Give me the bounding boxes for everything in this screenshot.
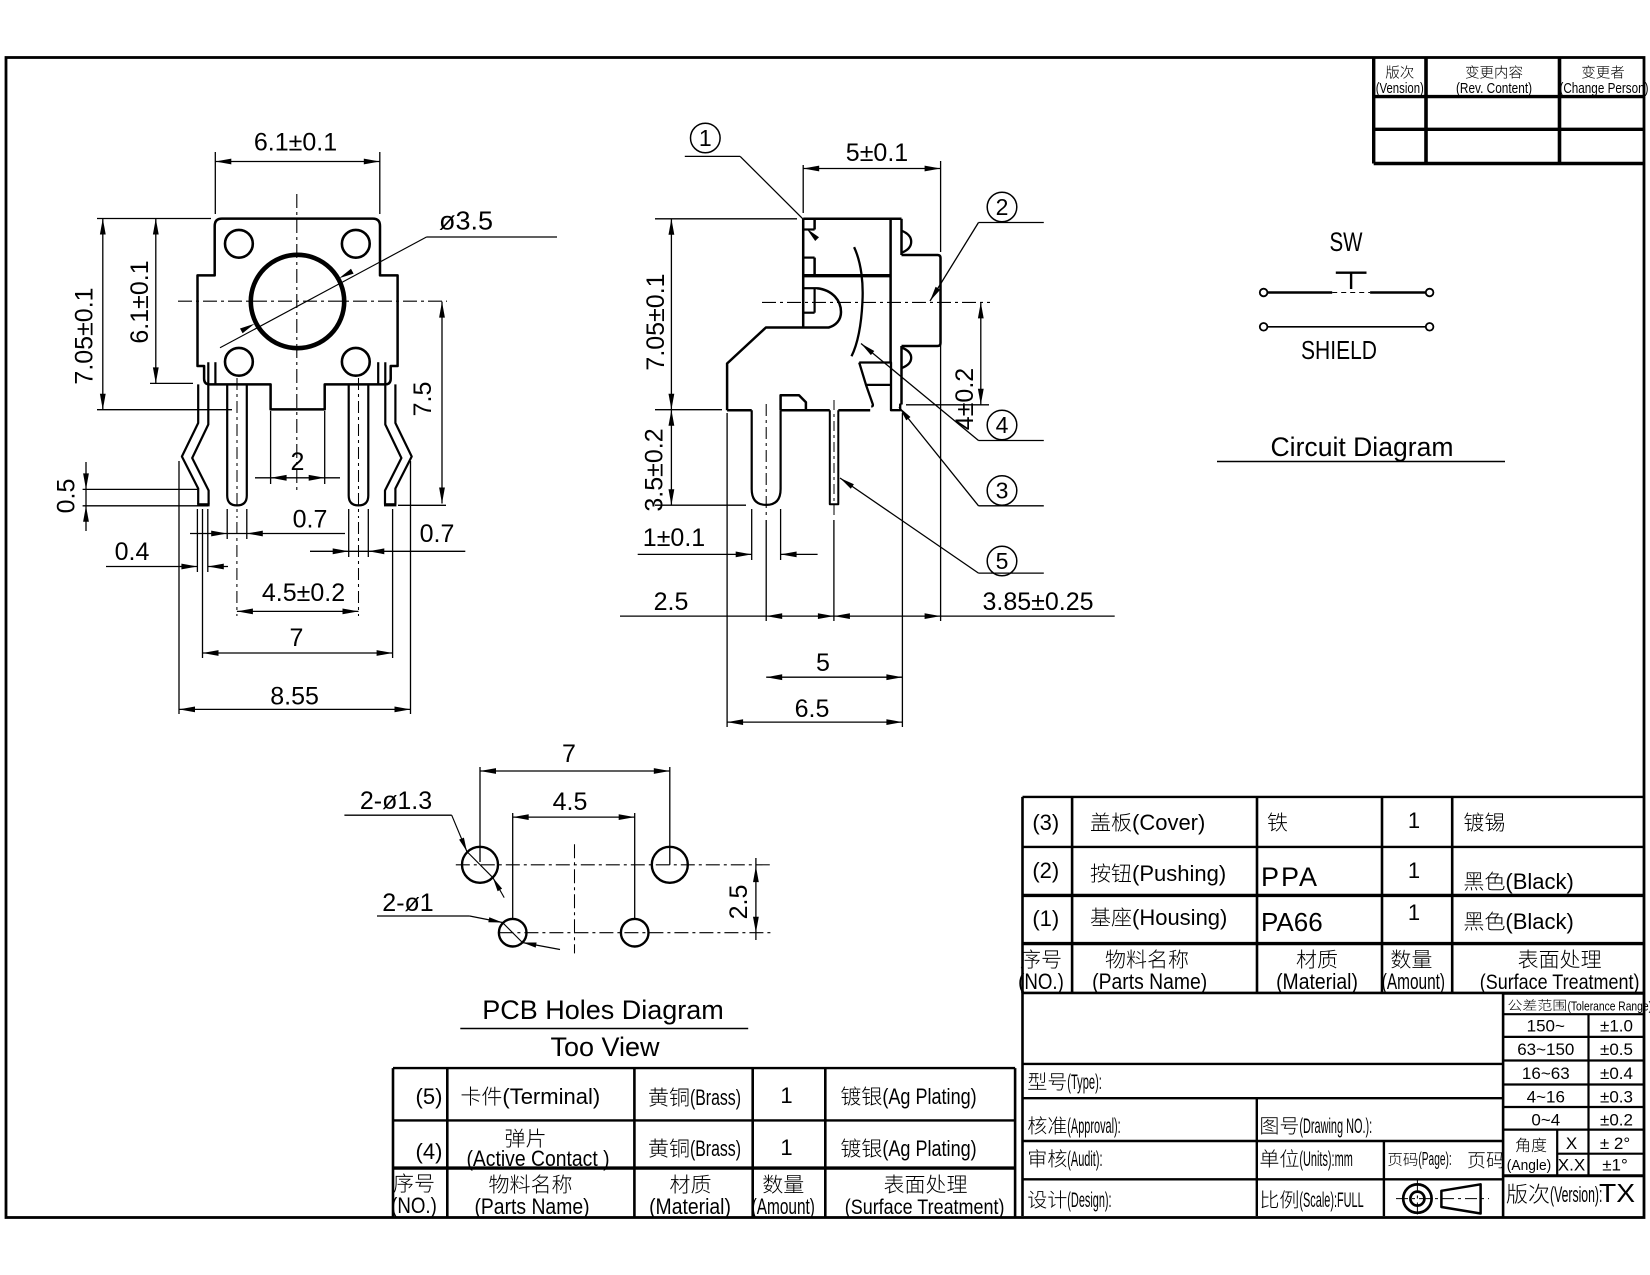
front view left terminal clip [182, 362, 216, 505]
revision table grid [1374, 58, 1645, 164]
pcb hole top-right dia 1.3 [652, 847, 688, 883]
svg-text:16~63: 16~63 [1522, 1064, 1570, 1083]
bottom parts table row 4 active contact [416, 1129, 977, 1171]
dimension 4.5+-0.2 pin pitch [237, 522, 359, 616]
pcb hole bottom-left dia 1 [499, 919, 527, 947]
version cell [1507, 1182, 1603, 1207]
svg-text:(Pushing): (Pushing) [1132, 861, 1226, 886]
bottom parts table grid [393, 1068, 1015, 1217]
svg-text:1: 1 [780, 1083, 792, 1108]
front view corner hole bottom-left [225, 348, 253, 376]
svg-text:6.1±0.1: 6.1±0.1 [254, 129, 337, 157]
dimension 5 side [766, 649, 902, 680]
svg-text:(Rev. Content): (Rev. Content) [1456, 80, 1532, 97]
svg-text:5: 5 [816, 649, 830, 677]
svg-text:2: 2 [291, 448, 305, 476]
svg-text:2.5: 2.5 [654, 588, 689, 616]
dimension 7.05+-0.1 left outer [71, 219, 233, 410]
svg-text:(NO.): (NO.) [391, 1193, 437, 1218]
svg-text:(Vension): (Vension) [1376, 80, 1424, 97]
svg-text:(Drawing NO.):: (Drawing NO.): [1299, 1115, 1372, 1138]
svg-text:SW: SW [1330, 227, 1363, 257]
svg-text:ø3.5: ø3.5 [439, 206, 493, 236]
svg-text:2: 2 [996, 194, 1009, 220]
svg-text:7.05±0.1: 7.05±0.1 [71, 287, 99, 384]
svg-text:(Page):: (Page): [1418, 1149, 1451, 1169]
svg-text:0.7: 0.7 [420, 520, 455, 548]
front view left pin [227, 378, 247, 518]
svg-text:(Black): (Black) [1505, 909, 1573, 934]
front view corner hole bottom-right [342, 348, 370, 376]
svg-text:(Terminal): (Terminal) [502, 1084, 600, 1109]
svg-text:(Cover): (Cover) [1132, 810, 1205, 835]
svg-text:(Black): (Black) [1505, 869, 1573, 894]
switch terminal left [1260, 289, 1268, 297]
dimension 3.5+-0.2 side pin length [641, 410, 747, 512]
dimension 2.5 pcb [725, 858, 759, 940]
side view horizontal centerline [762, 301, 990, 303]
svg-text:2-ø1.3: 2-ø1.3 [360, 787, 432, 815]
svg-text:(Approval):: (Approval): [1067, 1115, 1120, 1138]
svg-text:6.1±0.1: 6.1±0.1 [126, 260, 154, 343]
third angle projection symbol [1396, 1180, 1489, 1218]
front view horizontal centerline [178, 300, 447, 302]
dimension 7 pcb [480, 740, 670, 865]
front view vertical centerline [296, 194, 298, 492]
svg-text:7: 7 [290, 624, 304, 652]
svg-text:2-ø1: 2-ø1 [382, 889, 433, 917]
front view housing body outline [198, 219, 398, 410]
svg-text:PPA: PPA [1261, 862, 1319, 892]
svg-text:X.X: X.X [1558, 1156, 1585, 1175]
dimension 0.4 clip width [106, 509, 228, 572]
svg-text:0~4: 0~4 [1531, 1111, 1560, 1130]
switch symbol [1268, 273, 1426, 293]
svg-text:7.5: 7.5 [409, 382, 437, 417]
right parts table header [1018, 949, 1639, 994]
svg-text:6.5: 6.5 [795, 695, 830, 723]
dimension 8.55 overall width [179, 461, 411, 714]
svg-text:4: 4 [996, 412, 1009, 438]
dimension 1+-0.1 pin width side [638, 509, 818, 560]
svg-text:(Active Contact ): (Active Contact ) [466, 1146, 609, 1171]
side view pushbutton [902, 231, 941, 369]
svg-text:(5): (5) [416, 1084, 443, 1109]
svg-text:0.4: 0.4 [115, 538, 150, 566]
shield wire [1268, 326, 1426, 328]
svg-text:(Ag Plating): (Ag Plating) [882, 1136, 976, 1161]
svg-text:7: 7 [562, 740, 576, 768]
svg-text:3.85±0.25: 3.85±0.25 [982, 588, 1093, 616]
svg-text:(Tolerance Range): (Tolerance Range) [1568, 999, 1650, 1014]
dimension label dia 3.5 with leader [220, 206, 557, 348]
svg-text:(Change Person): (Change Person) [1559, 80, 1648, 97]
balloon 3 cover [899, 407, 1044, 506]
dimension 6.1+-0.1 top [215, 129, 379, 215]
balloon 5 terminal [840, 478, 1044, 576]
dimension 6.5 side [727, 413, 902, 727]
svg-text:(Surface Treatment): (Surface Treatment) [845, 1196, 1005, 1219]
svg-text:SHIELD: SHIELD [1301, 335, 1377, 365]
dimension 5+-0.1 side top [803, 139, 940, 252]
dimension 7.5 right [398, 302, 446, 506]
svg-text:Circuit Diagram: Circuit Diagram [1271, 432, 1454, 462]
balloon 4 active contact [861, 344, 1044, 441]
balloon 1 housing [685, 123, 819, 241]
svg-text:(Amount): (Amount) [1382, 969, 1445, 994]
svg-text:±1°: ±1° [1602, 1156, 1628, 1175]
svg-text:(Scale):FULL: (Scale):FULL [1299, 1189, 1363, 1212]
label 2-dia1.3 with leader [344, 787, 504, 898]
dimension 0.7 right pin width [310, 509, 465, 557]
revision table header 版次(Vension) [1386, 65, 1414, 78]
pcb hole bottom-right dia 1 [621, 919, 649, 947]
svg-text:(4): (4) [416, 1139, 443, 1164]
svg-text:7.05±0.1: 7.05±0.1 [642, 273, 670, 370]
svg-text:(Audit):: (Audit): [1067, 1148, 1102, 1171]
dimension 6.1+-0.1 left inner [126, 219, 193, 384]
svg-text:150~: 150~ [1527, 1017, 1565, 1036]
svg-text:3.5±0.2: 3.5±0.2 [641, 428, 669, 511]
dimension 0.5 clip foot [53, 462, 209, 531]
front view right terminal clip [378, 362, 412, 505]
svg-text:(Parts Name): (Parts Name) [1092, 969, 1207, 994]
svg-text:5±0.1: 5±0.1 [846, 139, 908, 167]
svg-text:±0.3: ±0.3 [1600, 1088, 1633, 1107]
title block grid [1023, 991, 1504, 1216]
revision table header 变更者(Change Person) [1582, 65, 1624, 78]
svg-text:4.5±0.2: 4.5±0.2 [262, 579, 345, 607]
side view cover plate [803, 219, 901, 410]
svg-text:(Design):: (Design): [1067, 1189, 1111, 1212]
svg-text:0.5: 0.5 [53, 479, 81, 514]
svg-text:±0.2: ±0.2 [1600, 1111, 1633, 1130]
bottom parts table row 5 terminal [416, 1083, 977, 1110]
svg-text:(Material): (Material) [649, 1194, 731, 1219]
svg-text:(Ag Plating): (Ag Plating) [882, 1084, 976, 1109]
svg-text:TX: TX [1599, 1178, 1635, 1208]
front view actuator circle dia 3.5 [251, 255, 344, 348]
dimension 0.7 left pin width [190, 506, 345, 540]
bottom parts table header [391, 1173, 1004, 1219]
svg-text:(Angle): (Angle) [1507, 1158, 1551, 1174]
svg-text:0.7: 0.7 [293, 506, 328, 534]
shield terminal left [1260, 323, 1268, 331]
svg-text:PCB Holes Diagram: PCB Holes Diagram [482, 995, 724, 1025]
svg-text:±0.5: ±0.5 [1600, 1040, 1633, 1059]
svg-text:3: 3 [996, 478, 1009, 504]
revision table header 变更内容(Rev. Content) [1466, 65, 1522, 78]
svg-text:4±0.2: 4±0.2 [951, 368, 979, 430]
side view left pin [752, 404, 781, 516]
front view corner hole top-right [342, 230, 370, 258]
dimension 7.05+-0.1 side left [642, 219, 797, 410]
svg-text:1: 1 [699, 125, 712, 151]
dimension 2.5 and 3.85+-0.25 baseline [620, 345, 1115, 621]
svg-text:(Brass): (Brass) [690, 1085, 741, 1110]
side view middle terminal pin [830, 400, 839, 516]
svg-text:1: 1 [1408, 808, 1420, 833]
dimension 4.5 pcb [513, 788, 635, 919]
svg-text:63~150: 63~150 [1517, 1040, 1574, 1059]
svg-text:(Version):: (Version): [1550, 1182, 1602, 1207]
dimension 2 center notch [255, 411, 340, 484]
svg-text:(Parts Name): (Parts Name) [474, 1194, 589, 1219]
right parts table row 1 housing [1032, 900, 1573, 937]
svg-text:Too View: Too View [550, 1032, 660, 1062]
dimension 4+-0.2 side right [906, 302, 989, 430]
svg-text:1: 1 [1408, 900, 1420, 925]
title PCB Holes Diagram [460, 995, 748, 1029]
svg-text:1: 1 [1408, 858, 1420, 883]
dimension 7 clip feet pitch [203, 509, 393, 658]
svg-text:(2): (2) [1032, 858, 1059, 883]
svg-text:(Material): (Material) [1276, 969, 1358, 994]
front view corner hole top-left [225, 230, 253, 258]
svg-text:(Housing): (Housing) [1132, 905, 1227, 930]
svg-text:(Amount): (Amount) [752, 1194, 815, 1219]
svg-text:4.5: 4.5 [553, 788, 588, 816]
svg-text:(Surface Treatment): (Surface Treatment) [1480, 971, 1640, 994]
side view contact flap [859, 363, 891, 407]
svg-text:4~16: 4~16 [1527, 1088, 1565, 1107]
pcb centerlines [456, 844, 771, 953]
shield terminal right [1426, 323, 1434, 331]
svg-text:(Brass): (Brass) [690, 1136, 741, 1161]
svg-text:(Units):mm: (Units):mm [1299, 1148, 1352, 1171]
svg-text:(Type):: (Type): [1067, 1071, 1102, 1094]
side view active contact spring arc [852, 247, 863, 356]
right parts table row 3 cover [1032, 808, 1504, 835]
label 2-dia1 with leader [377, 889, 560, 950]
svg-text:(3): (3) [1032, 810, 1059, 835]
side view housing outline [727, 219, 891, 410]
pcb hole top-left dia 1.3 [462, 847, 498, 883]
svg-text:± 2°: ± 2° [1600, 1134, 1630, 1153]
svg-text:1: 1 [780, 1135, 792, 1160]
title block labels [1028, 1071, 1504, 1212]
front view right pin [349, 378, 369, 518]
right parts table row 2 pushing [1032, 858, 1573, 894]
svg-text:X: X [1566, 1134, 1577, 1153]
svg-text:±1.0: ±1.0 [1600, 1017, 1633, 1036]
svg-text:±0.4: ±0.4 [1600, 1064, 1633, 1083]
svg-text:8.55: 8.55 [270, 683, 319, 711]
svg-text:2.5: 2.5 [725, 885, 753, 920]
right parts table grid [1023, 797, 1645, 993]
balloon 2 pushing [930, 192, 1044, 301]
svg-text:(NO.): (NO.) [1018, 969, 1064, 994]
svg-text:(1): (1) [1032, 906, 1059, 931]
svg-text:PA66: PA66 [1261, 907, 1323, 937]
switch terminal right [1426, 289, 1434, 297]
tolerance table [1503, 994, 1650, 1217]
svg-text:1±0.1: 1±0.1 [643, 524, 705, 552]
svg-text:5: 5 [996, 548, 1009, 574]
